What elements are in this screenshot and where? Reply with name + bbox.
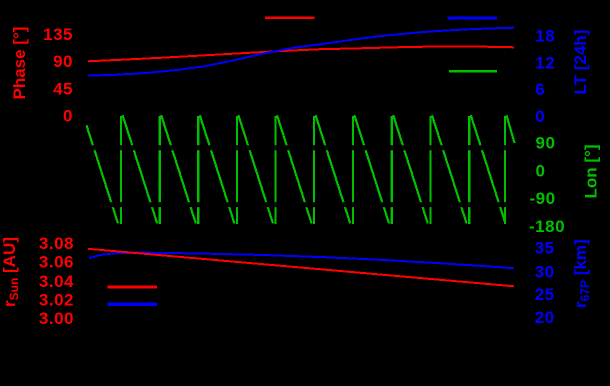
- svg-text:20: 20: [535, 308, 555, 327]
- svg-text:90: 90: [536, 134, 556, 153]
- svg-text:3.04: 3.04: [39, 272, 74, 291]
- svg-text:Phase [°]: Phase [°]: [10, 27, 29, 100]
- svg-text:25: 25: [535, 285, 555, 304]
- sawtooth descent 8 (green): [393, 115, 428, 223]
- legend line: Phase (red, top center): [265, 17, 314, 19]
- sawtooth descent 11 (green): [507, 115, 515, 143]
- svg-text:18: 18: [535, 26, 555, 45]
- svg-text:LT [24h]: LT [24h]: [571, 30, 590, 95]
- curve: Lon sawtooth first descent (green): [87, 125, 119, 223]
- sawtooth descent 2 (green): [161, 115, 196, 223]
- svg-text:135: 135: [43, 25, 73, 44]
- sawtooth riser 8 (green): [391, 116, 393, 224]
- grid gap band at Lon=-90 (black over green): [85, 202, 516, 207]
- sawtooth riser 3 (green): [197, 116, 199, 224]
- legend line: LT (blue, top right): [448, 16, 498, 19]
- sawtooth descent 7 (green): [354, 115, 389, 223]
- sawtooth descent 10 (green): [471, 115, 506, 223]
- svg-text:-180: -180: [529, 217, 565, 236]
- svg-text:-90: -90: [530, 189, 556, 208]
- curve: Local Time vs time (blue, top panel): [88, 28, 514, 76]
- sawtooth descent 6 (green): [316, 115, 351, 223]
- svg-text:0: 0: [535, 107, 545, 126]
- curve: r_67P vs time (blue, bottom panel): [89, 253, 514, 269]
- curve: Phase vs time (red, top panel): [88, 46, 514, 61]
- sawtooth riser 5 (green): [274, 116, 276, 224]
- sawtooth descent 3 (green): [200, 115, 235, 223]
- sawtooth descent 9 (green): [432, 115, 467, 223]
- sawtooth riser 6 (green): [313, 116, 315, 224]
- grid gap band at Lon=90 (black over green): [85, 145, 516, 150]
- svg-text:12: 12: [535, 53, 555, 72]
- svg-text:90: 90: [53, 52, 73, 71]
- svg-text:45: 45: [53, 79, 73, 98]
- svg-text:3.02: 3.02: [39, 291, 74, 310]
- sawtooth descent 5 (green): [277, 115, 312, 223]
- svg-text:6: 6: [535, 80, 545, 99]
- legend line: Lon (green, right): [449, 70, 497, 73]
- svg-text:35: 35: [535, 239, 555, 258]
- svg-text:3.08: 3.08: [39, 234, 74, 253]
- sawtooth riser 2 (green): [159, 116, 161, 224]
- legend line: r_67P (blue, bottom left): [108, 302, 157, 305]
- legend line: r_sun (red, bottom left): [108, 286, 157, 289]
- sawtooth riser 10 (green): [468, 116, 470, 224]
- sawtooth riser 11 (green): [504, 116, 506, 224]
- sawtooth riser 7 (green): [352, 116, 354, 224]
- sawtooth riser 4 (green): [236, 116, 238, 224]
- sawtooth descent 4 (green): [238, 115, 273, 223]
- svg-text:Lon [°]: Lon [°]: [582, 145, 601, 199]
- svg-text:3.06: 3.06: [39, 253, 74, 272]
- sawtooth riser 9 (green): [429, 116, 431, 224]
- svg-text:3.00: 3.00: [39, 309, 74, 328]
- svg-text:30: 30: [535, 262, 555, 281]
- sawtooth riser 1 (green): [120, 116, 122, 224]
- svg-text:0: 0: [63, 107, 73, 126]
- sawtooth descent 1 (green): [123, 115, 158, 223]
- svg-text:0: 0: [536, 161, 546, 180]
- curve: r_Sun vs time (red, bottom panel): [88, 249, 514, 286]
